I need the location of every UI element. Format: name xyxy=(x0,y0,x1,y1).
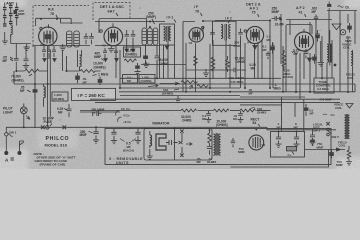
label 51,000 OHMS boxed xyxy=(124,47,141,57)
oscillator coil section 1 xyxy=(142,28,147,45)
antenna coil L1 xyxy=(11,24,13,37)
wire pair left of V3 xyxy=(183,22,195,92)
capacitor bottom 1 xyxy=(93,127,99,143)
wire loop around V5 xyxy=(286,25,312,36)
resistor row y110: resistor 32000 xyxy=(181,109,197,112)
wire top right net xyxy=(281,11,357,65)
wire 70k xyxy=(16,70,48,72)
capacitors under V2 xyxy=(103,48,118,58)
capacitor dark x272 xyxy=(270,42,275,54)
capacitor vibrator xyxy=(207,147,212,155)
field coil winding xyxy=(345,115,347,138)
connector X top xyxy=(180,130,183,133)
resistor vertical 75k xyxy=(226,56,230,72)
capacitor 0.25 xyxy=(67,104,72,117)
capacitor pair left of V2 xyxy=(84,33,89,44)
vibrator reed xyxy=(156,134,166,150)
volume pot resistor xyxy=(160,81,198,86)
wire top V3-V4 xyxy=(203,20,332,22)
label 0.5 MF boxed xyxy=(123,75,138,84)
switch SW2 xyxy=(327,128,330,131)
label 1,500 OHMS boxed xyxy=(139,75,155,84)
IF transformer 1 xyxy=(160,24,175,45)
wire verticals left xyxy=(16,44,81,129)
junction blob xyxy=(334,64,337,67)
tone control box xyxy=(314,78,334,93)
capacitor right of T2 xyxy=(231,138,235,147)
fuse 10 AMP xyxy=(46,126,50,130)
IF frequency box xyxy=(72,88,116,100)
capacitor with ground mid-left xyxy=(23,56,29,69)
capacitor xyxy=(89,33,94,44)
wire diode row xyxy=(305,148,345,151)
connector X right xyxy=(326,122,329,125)
resistor vibrator xyxy=(208,130,212,147)
wire bus top xyxy=(36,18,165,26)
electrolytic capacitor 8MF xyxy=(293,132,299,148)
shield box (dashed) RF section xyxy=(33,6,89,47)
wire bottom right L xyxy=(231,150,329,168)
capacitor dark x332 xyxy=(329,150,334,159)
wire under V1 components xyxy=(33,45,90,47)
capacitor mid 2 xyxy=(155,52,160,64)
main power line xyxy=(6,127,336,130)
resistor right row xyxy=(240,109,256,112)
speaker plug triangle 2 xyxy=(346,104,353,109)
tube V5 AF2 41 xyxy=(295,32,314,51)
wire y64.5 xyxy=(141,64,186,66)
capacitor dark top right corner xyxy=(347,23,352,33)
capacitor .05 left xyxy=(10,57,13,61)
tube V3 IF 78 xyxy=(189,28,203,42)
capacitor left of IF2 xyxy=(210,29,215,43)
RF coil condenser section 2 xyxy=(74,31,80,47)
capacitor dark right x317 xyxy=(315,30,320,42)
antenna trimmer capacitor cluster xyxy=(3,6,19,27)
resistor 70,000 xyxy=(25,69,39,73)
ground left xyxy=(2,32,8,44)
wire grid loop V2 xyxy=(99,19,147,34)
wiper arrow mid xyxy=(148,84,158,87)
IF transformer 2 xyxy=(213,21,237,45)
battery terminal A xyxy=(5,151,8,154)
electrolytic capacitor 4MF xyxy=(275,132,281,148)
label 1,000 (OHMS) boxed xyxy=(52,92,68,101)
capacitor right of V2 xyxy=(124,30,129,49)
removable units box xyxy=(105,129,331,165)
output transformer T3 xyxy=(327,44,329,62)
capacitor dark x137 xyxy=(135,63,141,75)
vibrator unit box xyxy=(144,129,212,161)
field coil choke xyxy=(351,52,353,66)
voice coil connector circle xyxy=(340,30,345,35)
ground vibrator xyxy=(147,149,153,159)
capacitor 0.25 V5 xyxy=(304,49,309,58)
tube V2 DET1/OSC 6A7 xyxy=(104,27,123,46)
resistor lower xyxy=(197,85,208,88)
ground symbols under tubes xyxy=(24,44,34,50)
connector X bottom xyxy=(180,154,183,157)
capacitor dark x314 xyxy=(312,54,317,64)
capacitor top right xyxy=(327,2,331,11)
capacitor 0.1 xyxy=(266,52,270,60)
wire from coil xyxy=(11,35,31,44)
RF coil condenser section 1 xyxy=(67,31,73,47)
arrow down x309 xyxy=(308,58,312,62)
connector X mark 2 xyxy=(63,126,67,130)
resistor vertical 45k xyxy=(194,56,198,66)
wire xyxy=(230,110,240,112)
pilot lamp xyxy=(20,107,27,114)
capacitor on y70 wire xyxy=(232,68,239,73)
capacitor mid right xyxy=(304,104,309,116)
capacitors under V1 xyxy=(42,46,56,59)
capacitor .002 xyxy=(314,15,318,24)
resistor vertical right xyxy=(347,146,351,159)
RF coil 2 xyxy=(80,55,82,67)
wire xyxy=(257,110,271,112)
label Ch xyxy=(338,6,344,8)
wire vibrator vertical xyxy=(175,129,183,160)
capacitor dark x312 xyxy=(310,138,315,146)
resistor mid row xyxy=(214,109,230,112)
junction node xyxy=(149,26,151,28)
capacitor dark mid xyxy=(143,52,148,64)
connector X mark xyxy=(41,126,45,130)
ground right bottom xyxy=(346,159,352,165)
tube V4 DET2/AF1 75 xyxy=(246,26,263,43)
wire resistor row xyxy=(80,110,214,112)
resistor 10,000 xyxy=(67,70,101,73)
filter unit box xyxy=(271,132,305,158)
vibrator coil xyxy=(150,135,152,148)
capacitor bottom 3 xyxy=(135,129,141,144)
resistor vertical x213 xyxy=(211,57,215,71)
resistor small below 51k xyxy=(124,59,136,62)
capacitor .05 2 (dark) xyxy=(32,84,37,99)
capacitor .05 x77 xyxy=(75,73,80,83)
tube V1 RF 78 xyxy=(39,27,57,45)
capacitor 250MMF xyxy=(272,16,282,21)
oscillator coil section 2 xyxy=(148,28,153,45)
capacitor dark below 1MEG xyxy=(98,77,103,86)
capacitor 470 MMF xyxy=(14,10,18,14)
wire under V2 components xyxy=(95,45,160,47)
ground under transformer xyxy=(318,41,325,66)
capacitor bottom 2 xyxy=(111,129,117,144)
wire stub xyxy=(20,141,25,152)
wire horizontal y84 xyxy=(14,83,120,85)
tube V6 RECT 84 xyxy=(249,135,264,150)
resistor block C+ xyxy=(287,147,297,151)
power transformer T2 xyxy=(214,134,216,155)
capacitor 250 mid xyxy=(93,111,102,116)
vibrator contacts xyxy=(166,140,178,145)
resistor vertical left of 0.25meg xyxy=(282,50,286,70)
paper dark speckles xyxy=(59,7,320,120)
electrolytic capacitor right xyxy=(309,129,315,145)
choke coil L2 xyxy=(44,87,46,98)
capacitor xyxy=(131,30,136,49)
wire bus mid xyxy=(80,111,120,113)
speaker plug triangle xyxy=(332,24,341,30)
capacitor right of IF2 xyxy=(238,29,243,43)
shield box (dashed) OSC section xyxy=(93,3,130,21)
bus right risers xyxy=(240,97,305,132)
wire verticals mid xyxy=(116,45,157,89)
main bus lines xyxy=(90,78,355,102)
antenna lead wires xyxy=(5,3,17,26)
padder capacitor section 3 xyxy=(153,28,158,45)
